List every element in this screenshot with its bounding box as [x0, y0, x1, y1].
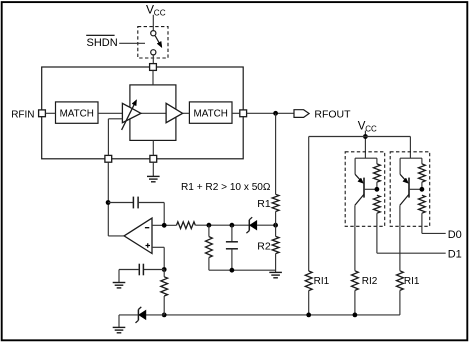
svg-text:RFIN: RFIN	[11, 110, 34, 121]
svg-text:RI1: RI1	[404, 276, 420, 287]
svg-text:R1: R1	[257, 198, 271, 210]
svg-text:RI1: RI1	[314, 276, 330, 287]
svg-text:MATCH: MATCH	[194, 108, 228, 119]
svg-text:SHDN: SHDN	[87, 37, 118, 49]
svg-text:RFOUT: RFOUT	[314, 108, 351, 120]
svg-text:D1: D1	[448, 249, 462, 261]
svg-text:R1 + R2 > 10 x 50Ω: R1 + R2 > 10 x 50Ω	[181, 182, 271, 193]
svg-text:MATCH: MATCH	[60, 108, 94, 119]
svg-text:CC: CC	[154, 9, 166, 18]
svg-text:D0: D0	[448, 229, 462, 241]
svg-text:CC: CC	[365, 125, 377, 134]
svg-text:RI2: RI2	[362, 276, 378, 287]
svg-text:R2: R2	[257, 241, 271, 253]
